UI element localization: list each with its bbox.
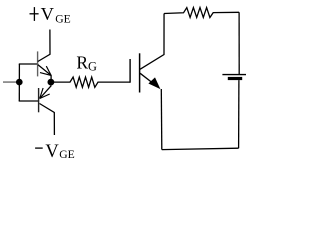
svg-text:GE: GE	[59, 148, 74, 161]
svg-text:V: V	[45, 142, 59, 162]
svg-text:V: V	[41, 4, 55, 24]
svg-text:G: G	[88, 59, 97, 73]
svg-text:GE: GE	[55, 12, 70, 25]
svg-text:R: R	[76, 53, 88, 73]
